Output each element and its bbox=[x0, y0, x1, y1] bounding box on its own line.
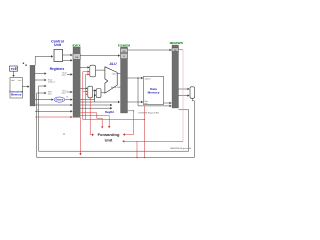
wire ID/EX rt field bbox=[80, 104, 112, 106]
wire write data from bottom loop bbox=[37, 92, 46, 94]
EX/MEM control latch M bbox=[121, 53, 128, 59]
red forward data horizontal bbox=[83, 119, 145, 121]
pink vertical MEM/WB control bbox=[182, 50, 184, 142]
wire read data 2 to ID/EX bbox=[67, 91, 72, 93]
pipeline register IF/ID bbox=[30, 65, 35, 106]
red arrow into mux A input 2 bbox=[83, 71, 89, 73]
svg-text:Memory: Memory bbox=[11, 93, 22, 97]
svg-text:Zero: Zero bbox=[112, 73, 116, 76]
wire instruction memory to IF/ID bbox=[22, 86, 29, 88]
sign extend output wire bbox=[65, 99, 73, 101]
red arrow into mux A input 3 bbox=[86, 73, 90, 75]
wire ID/EX rd field bbox=[80, 107, 112, 109]
stray dot bbox=[63, 133, 64, 134]
wire mux B value down to EX/MEM write data bbox=[95, 91, 120, 103]
wire control to ID/EX (1) bbox=[63, 54, 73, 56]
instruction memory bbox=[9, 78, 23, 98]
wire IF/ID rd field to ID/EX bbox=[35, 110, 72, 112]
svg-text:Unit: Unit bbox=[54, 43, 62, 47]
sign extend oval bbox=[54, 97, 65, 102]
write-back mux bbox=[190, 87, 195, 99]
svg-text:EX/MEM: EX/MEM bbox=[118, 43, 131, 47]
svg-text:addr: addr bbox=[11, 79, 15, 82]
EX/MEM.RegisterRd stub bbox=[128, 110, 134, 112]
svg-text:Result: Result bbox=[111, 86, 117, 89]
red mux B select to forwarding unit bbox=[90, 98, 94, 135]
wire EX/MEM control to MEM/WB bbox=[128, 49, 172, 51]
pipeline register EX/MEM bbox=[121, 47, 128, 113]
registers port labels bbox=[48, 73, 67, 96]
pipeline register ID/EX bbox=[73, 47, 80, 117]
junction red path 2 bbox=[144, 119, 145, 120]
PC register bbox=[10, 66, 18, 71]
svg-text:data 1: data 1 bbox=[62, 73, 67, 76]
immediate wire to ALUSrc mux bbox=[80, 95, 96, 99]
wire ID/EX read data 2 to forward mux B bbox=[80, 87, 87, 89]
sign extend input wire bbox=[35, 99, 53, 101]
red EX/MEM.RegisterRd tap bbox=[123, 111, 134, 135]
svg-text:RegRd: RegRd bbox=[105, 110, 114, 114]
EX/MEM control latch WB bbox=[121, 48, 128, 53]
ALUSrc mux bbox=[96, 89, 101, 98]
red wire ID/EX.RegisterRs to forwarding unit bbox=[81, 113, 103, 128]
forward mux A bbox=[90, 65, 96, 77]
svg-text:EX/MEM.RegisterRd: EX/MEM.RegisterRd bbox=[139, 112, 160, 115]
svg-text:address: address bbox=[145, 78, 151, 80]
svg-text:data: data bbox=[144, 102, 147, 105]
red wire to forwarding unit right bbox=[123, 140, 184, 142]
red MEM/WB control out bbox=[179, 49, 184, 51]
svg-text:Forwarding: Forwarding bbox=[98, 132, 120, 137]
ID/EX control latch bbox=[73, 54, 80, 60]
red vertical left of ID/EX down to rail bbox=[80, 118, 82, 156]
wire MEM/WB.RegisterRd hook bbox=[179, 110, 189, 151]
wire read data 1 to ID/EX bbox=[67, 73, 72, 75]
control unit box bbox=[54, 50, 63, 62]
svg-text:register 2: register 2 bbox=[48, 80, 55, 83]
junction ALU result bbox=[137, 77, 138, 78]
svg-text:MEM/WB: MEM/WB bbox=[170, 41, 184, 45]
wire ALU zero to EX/MEM bbox=[117, 73, 120, 75]
svg-text:ID/EX: ID/EX bbox=[72, 43, 81, 47]
pipeline register MEM/WB bbox=[172, 45, 179, 108]
red wire ID/EX.RegisterRt to forwarding unit bbox=[81, 116, 110, 128]
red arrow into mux B input 3 bbox=[86, 93, 88, 95]
svg-text:instr: instr bbox=[18, 79, 22, 82]
svg-text:32: 32 bbox=[66, 97, 68, 99]
wire mux A to ALU bbox=[96, 69, 105, 71]
ALU body bbox=[105, 67, 117, 93]
MEM/WB output to write-back mux (upper) bbox=[179, 88, 190, 90]
wire EX/MEM write data to data memory bbox=[128, 101, 143, 103]
forward mux B bbox=[88, 86, 93, 98]
red forward path 1 vertical bbox=[82, 72, 84, 120]
red forward path 2 vertical bbox=[85, 74, 87, 119]
red arrow into mux B input 2 bbox=[83, 91, 87, 93]
wire ID/EX control to EX/MEM bbox=[80, 55, 120, 57]
junction red rd tap bbox=[133, 110, 134, 111]
wire ID/EX read data 1 to forward mux A bbox=[80, 66, 89, 68]
red branch down to rail bbox=[136, 141, 138, 157]
svg-text:MEM/WB.RegisterRd: MEM/WB.RegisterRd bbox=[170, 147, 192, 150]
wire ALUSrc mux to ALU bbox=[101, 92, 105, 94]
junction red branch on rail bbox=[136, 157, 137, 158]
wire control to ID/EX (2) bbox=[63, 59, 73, 61]
wire IF/ID to read register 1 bbox=[35, 73, 46, 75]
svg-text:Registers: Registers bbox=[50, 67, 65, 71]
wire IF/ID up to control unit bbox=[35, 56, 53, 65]
bottom rail write data bbox=[37, 93, 195, 158]
wire IF/ID rs field to ID/EX (red) bbox=[35, 116, 72, 118]
junction mux B output bbox=[94, 90, 95, 91]
bottom rail write register bbox=[39, 86, 189, 151]
svg-text:data 2: data 2 bbox=[62, 91, 67, 94]
wire ALU result bypass down and to MEM/WB bbox=[138, 78, 171, 106]
svg-text:Memory: Memory bbox=[148, 90, 160, 94]
wire IF/ID rt field to ID/EX bbox=[35, 104, 72, 106]
MEM/WB control latch WB bbox=[172, 48, 179, 52]
svg-text:Unit: Unit bbox=[105, 138, 113, 143]
wire EX/MEM ALU result to data memory address bbox=[128, 77, 143, 79]
data memory bbox=[144, 76, 164, 105]
wire mux B to ALUSrc mux bbox=[93, 90, 97, 92]
junction red on rail bbox=[144, 157, 145, 158]
MEM/WB output to write-back mux (lower) bbox=[179, 95, 190, 97]
wire write register from bottom loop bbox=[39, 85, 47, 87]
svg-text:Extend: Extend bbox=[56, 99, 64, 102]
wire ALU result to EX/MEM bbox=[117, 86, 120, 88]
red vertical from bottom rail (MEM/WB value) bbox=[143, 106, 145, 158]
svg-text:data: data bbox=[48, 92, 51, 95]
wire write-back mux down to bottom rail bbox=[192, 98, 194, 157]
svg-text:ALU: ALU bbox=[108, 62, 117, 66]
tiny marks near PC bbox=[23, 63, 27, 66]
wire data memory read data to MEM/WB bbox=[164, 102, 172, 104]
wire IF/ID to read register 2 bbox=[35, 79, 46, 81]
wire PC to instruction memory bbox=[13, 71, 15, 76]
